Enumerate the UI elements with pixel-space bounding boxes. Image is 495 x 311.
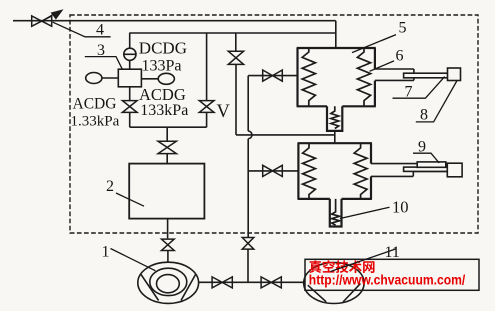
svg-text:ACDG: ACDG (73, 96, 117, 113)
vent arrow (43, 12, 58, 21)
wire: riser to DCDG gauge (129, 33, 131, 48)
vessel 2 (129, 164, 204, 219)
gauge manifold block, item 3 (118, 69, 141, 87)
svg-text:5: 5 (399, 20, 407, 37)
pump 1 (138, 262, 199, 303)
foreline valve left (212, 277, 232, 288)
wire: bypass down and over to chamber junction (236, 64, 335, 134)
svg-text:1: 1 (102, 244, 110, 261)
svg-text:4: 4 (96, 22, 104, 39)
valve on roughing column (242, 238, 254, 250)
valve on bypass riser (228, 51, 243, 64)
label 10 leader (340, 207, 390, 218)
valve (vent) with arrow, item 4 (32, 16, 52, 26)
label 4 leader (53, 22, 111, 37)
label 1 leader (111, 249, 156, 271)
svg-text:http://www.chvacuum.com/: http://www.chvacuum.com/ (309, 273, 466, 288)
svg-text:6: 6 (396, 48, 404, 65)
wire: bypass riser (235, 33, 237, 51)
wire (166, 154, 168, 164)
neck of chamber 12 (330, 199, 342, 227)
label 11 leader (331, 249, 397, 272)
valve under gauge block (122, 101, 137, 113)
wire (129, 87, 131, 101)
heater coil right in chamber 5, item 6 (357, 48, 370, 106)
wire: roughing column with crossover hop (248, 76, 252, 238)
label 2 leader (116, 193, 144, 206)
wire: main manifold (129, 32, 335, 34)
svg-text:9: 9 (418, 139, 426, 156)
wire: vent inlet line to chamber top (13, 21, 336, 49)
chamber 5 shell (297, 48, 376, 106)
svg-text:DCDG: DCDG (139, 39, 187, 58)
svg-text:7: 7 (405, 84, 413, 101)
wire: branch to chamber 5 (248, 75, 297, 77)
dashed system enclosure (70, 15, 478, 233)
heater coil left in chamber 5 (302, 48, 315, 106)
label 6 leader (370, 61, 395, 71)
watermark frame (305, 259, 479, 290)
wire (167, 251, 169, 263)
label 8 leader (416, 81, 457, 122)
svg-text:8: 8 (420, 107, 428, 124)
spring in neck of chamber 5 (331, 106, 339, 128)
svg-text:10: 10 (392, 198, 409, 217)
svg-text:3: 3 (97, 42, 105, 59)
wire: tee down to vessel 2 (166, 127, 168, 141)
gauge head ACDG 1.33kPa (left ellipse) (86, 73, 102, 84)
sample block item 9 (417, 162, 446, 167)
svg-text:2: 2 (106, 178, 114, 195)
svg-text:11: 11 (385, 244, 400, 261)
wire (129, 60, 131, 69)
label 7 leader (393, 77, 445, 99)
wire: vessel 2 to pump 1 (167, 219, 169, 239)
svg-text:133kPa: 133kPa (140, 102, 188, 119)
label 9 leader (413, 153, 439, 163)
gauge head square on chamber 12 tube (447, 163, 462, 177)
valve V (199, 101, 214, 113)
svg-text:1.33kPa: 1.33kPa (71, 114, 120, 130)
rod item 7 (404, 73, 449, 78)
pump 11 (304, 263, 364, 304)
heater coil left in chamber 12 (303, 143, 316, 199)
chamber 12 shell (298, 143, 372, 199)
gauge head square item 8 (448, 68, 461, 81)
wire (247, 249, 249, 282)
foreline valve right (261, 277, 281, 288)
label 3 leader (85, 57, 123, 70)
label 5 leader (352, 35, 396, 53)
valve above vessel 2 (158, 141, 176, 153)
wire: foreline (199, 281, 305, 283)
wire: gauge loop bottom (130, 113, 207, 127)
svg-text:V: V (217, 102, 231, 122)
valve above pump 1 (161, 239, 174, 250)
gauge head ACDG 133kPa (right ellipse) (158, 73, 174, 84)
wire: neck junction into chamber 12 top (334, 131, 336, 143)
valve to chamber 12 (263, 165, 283, 176)
gauge DCDG 133Pa (circle) (124, 48, 136, 60)
watermark CJK text (309, 260, 374, 273)
wire: V riser (206, 33, 208, 127)
wire: branch to chamber 12 (248, 170, 298, 172)
spring in neck, item 10 (332, 199, 340, 225)
valve to chamber 5 (263, 70, 283, 81)
tube on chamber 5 (375, 69, 414, 80)
heater coil right in chamber 12 (354, 143, 367, 199)
tube on chamber 12 (371, 164, 448, 177)
rod in tube (404, 167, 448, 171)
neck of chamber 5 (327, 106, 342, 131)
svg-text:133Pa: 133Pa (142, 58, 182, 75)
